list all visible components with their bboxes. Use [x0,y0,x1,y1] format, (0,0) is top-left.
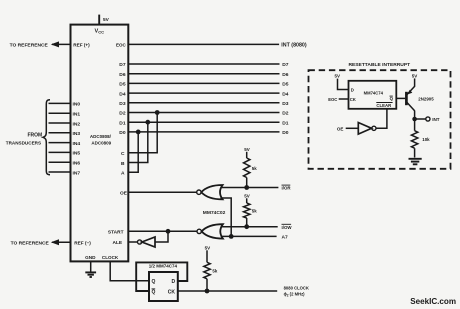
svg-text:Q: Q [152,279,156,285]
wire OE to inverter G4 [346,127,359,129]
svg-text:RESETTABLE INTERRUPT: RESETTABLE INTERRUPT [349,62,411,68]
transistor Q1 2N2905 [406,86,414,119]
svg-text:IN3: IN3 [73,131,81,137]
svg-text:D0: D0 [119,130,126,136]
wire IN0 [49,102,71,104]
svg-text:REF (+): REF (+) [73,42,90,47]
svg-text:IN0: IN0 [73,102,81,108]
svg-text:5V: 5V [103,17,110,23]
wire D1 [128,121,279,123]
label I/OR [282,185,292,191]
svg-text:I/OW: I/OW [282,225,293,230]
svg-text:D3: D3 [119,101,126,107]
wire Qbar to transistor base [396,97,405,99]
svg-text:INT: INT [432,117,440,122]
wire to INT terminal [415,118,426,120]
svg-text:D4: D4 [119,91,126,97]
flip-flop U3 MM74C74 body [349,81,397,109]
svg-text:5k: 5k [212,269,217,274]
wire D5 [128,82,279,84]
wire IN7 [49,171,71,173]
wire IN3 [49,132,71,134]
svg-text:D6: D6 [119,72,126,78]
ground below R4 [409,159,422,165]
svg-text:D1: D1 [282,120,289,126]
svg-text:D1: D1 [119,120,126,126]
svg-text:A: A [121,171,125,177]
svg-text:ϕ2 (2 MHz): ϕ2 (2 MHz) [284,292,306,298]
pin label Qbar [152,289,156,296]
svg-text:OE: OE [120,190,128,196]
node on D0 [136,130,141,135]
wire EOC to CK (U3) [339,98,349,100]
svg-text:D2: D2 [282,111,289,117]
resistor R1 5k [244,152,250,188]
wire D3 [128,102,279,104]
wire D4 [128,92,279,94]
svg-text:D7: D7 [119,62,126,68]
resistor R2 5k [244,198,250,226]
svg-text:TO REFERENCE: TO REFERENCE [10,43,49,49]
svg-text:GND: GND [85,255,96,260]
svg-text:OE: OE [337,127,344,132]
wire G1 top input / IOR line [220,187,278,189]
svg-text:8080 CLOCK: 8080 CLOCK [284,285,309,290]
svg-text:D: D [351,88,354,93]
svg-text:I/OR: I/OR [282,186,292,191]
svg-text:Q: Q [152,290,156,296]
wire D0 [128,131,279,133]
svg-text:CK: CK [168,290,176,296]
wire D7 [128,63,279,65]
svg-text:D6: D6 [282,72,289,78]
part label ADC0808/ADC0809 [90,134,112,146]
svg-text:ALE: ALE [113,240,123,246]
wire CLOCK pin to flip-flop Q [110,261,149,280]
wire IN6 [49,161,71,163]
svg-text:D7: D7 [282,62,289,68]
svg-text:IN7: IN7 [73,170,81,176]
flip-flop U2 1/2 MM74C74 body [149,272,178,301]
pin label CLEAR (U3) [376,103,392,108]
svg-text:EOC: EOC [328,97,337,102]
svg-text:SeekIC.com: SeekIC.com [410,297,456,306]
svg-text:10k: 10k [422,137,430,142]
svg-text:MM74C74: MM74C74 [364,90,384,95]
NOR gate G2 (MM74C02) [197,224,223,238]
label 8080 CLOCK phi2 [284,285,309,297]
wire REF(+) [52,43,71,45]
svg-text:5k: 5k [252,209,257,214]
svg-text:D: D [172,279,176,285]
5V supply stub to Vcc [99,15,109,25]
node IOW pullup [244,224,249,229]
svg-text:C: C [121,151,125,157]
svg-text:2N2905: 2N2905 [418,96,434,101]
svg-text:D0: D0 [282,130,289,136]
svg-text:FROM: FROM [28,133,43,139]
svg-text:D5: D5 [282,82,289,88]
wire D0 to A [128,132,138,172]
svg-text:CLEAR: CLEAR [376,103,392,108]
wire OE to gate G1 output [128,191,196,193]
wire IN5 [49,151,71,153]
wire IN4 [49,142,71,144]
NOR gate G1 (MM74C02) [197,185,223,199]
svg-text:CK: CK [350,97,357,102]
wire D6 [128,73,279,75]
node collector junction [412,117,417,122]
resistor R3 5k [204,250,210,291]
ground at GND pin [85,261,96,277]
svg-text:5V: 5V [412,73,418,78]
svg-text:B: B [121,161,125,167]
svg-text:5V: 5V [244,193,250,198]
svg-text:IN5: IN5 [73,151,81,157]
wire inverter to CLEAR [376,109,387,129]
svg-text:REF (−): REF (−) [74,240,91,245]
IC U1 ADC0808/ADC0809 body [71,25,129,262]
svg-text:CLOCK: CLOCK [102,255,119,260]
wire D2 to C [128,113,157,153]
svg-text:INT (8080): INT (8080) [281,43,307,49]
wire CK to 8080 clock [178,290,277,292]
dashed enclosure resettable interrupt [309,70,451,169]
wire REF(-) [52,241,71,243]
svg-text:IN2: IN2 [73,121,81,127]
wire EOC to INT [128,43,279,45]
svg-text:A7: A7 [282,235,289,241]
wire G2 bottom input / A7 line [221,235,277,237]
svg-text:IN6: IN6 [73,161,81,167]
node on D1 [145,120,150,125]
5V supply to D (U3) [335,74,349,90]
wire D2 [128,112,279,114]
node START/ALE junction [166,229,171,234]
wire G1 bottom input to A7 line [220,198,231,236]
svg-text:D3: D3 [282,101,289,107]
terminal INT [426,117,440,122]
wire START to gate G2 output [128,230,197,232]
brace for transducer inputs [43,100,50,175]
wire ALE to inverter output [128,241,137,243]
svg-text:5V: 5V [244,147,250,152]
resistor R4 10k [411,119,417,158]
inverter G4 [358,123,376,135]
5V supply to emitter [412,73,418,87]
svg-text:1/2 MM74C74: 1/2 MM74C74 [149,264,178,269]
svg-text:5V: 5V [335,74,341,79]
svg-text:TRANSDUCERS: TRANSDUCERS [6,140,41,145]
wire IN1 [49,112,71,114]
wire inverter input from START node [155,231,168,242]
wire G2 top input / IOW line [221,226,278,228]
svg-text:EOC: EOC [116,42,127,47]
svg-text:D5: D5 [119,82,126,88]
node on D2 [155,110,160,115]
node A7 junction [229,234,234,239]
svg-text:MM74C02: MM74C02 [203,210,226,216]
svg-text:ADC0808/: ADC0808/ [90,134,112,139]
node IOR pullup [244,185,249,190]
pin label Qbar (U3) [390,96,394,101]
label FROM TRANSDUCERS [6,133,42,146]
svg-text:ADC0809: ADC0809 [91,141,111,146]
wire D1 to B [128,122,148,162]
svg-text:VCC: VCC [95,28,105,34]
svg-text:START: START [108,229,124,235]
wire IN2 [49,122,71,124]
node clock pullup [205,289,210,294]
svg-text:TO REFERENCE: TO REFERENCE [11,240,50,246]
arrow to reference (top) [51,41,59,47]
inverter G3 on ALE [138,237,156,247]
svg-text:5k: 5k [252,166,257,171]
svg-text:IN1: IN1 [73,112,81,118]
svg-text:D2: D2 [119,111,126,117]
arrow to reference (bottom) [51,239,59,245]
svg-text:5V: 5V [205,245,211,250]
wire Qbar to D feedback loop [136,262,187,291]
svg-text:IN4: IN4 [73,141,81,147]
label I/OW [282,224,293,230]
svg-text:D4: D4 [282,91,289,97]
